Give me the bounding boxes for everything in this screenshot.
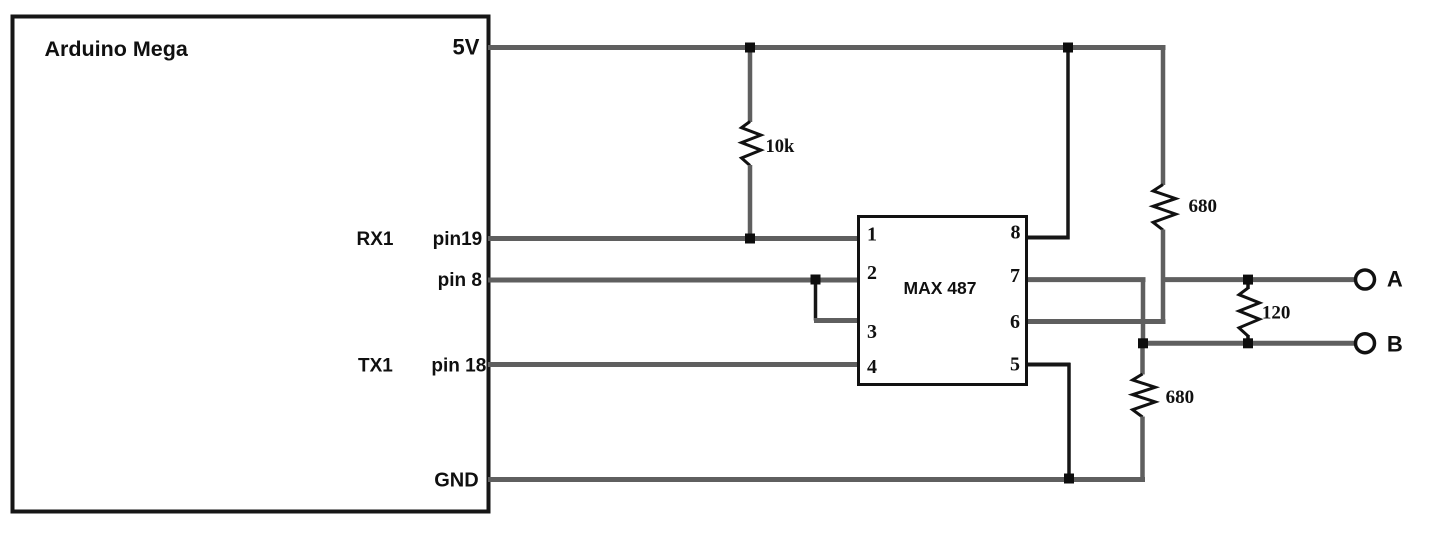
wire jog junction to U1 pin3 vertical <box>814 278 818 321</box>
resistor R3 120 stub top <box>1246 280 1250 289</box>
junction node B-R3 <box>1243 338 1253 348</box>
wire node B line <box>1143 341 1356 346</box>
resistor R3 120 stub bottom <box>1246 335 1250 343</box>
wire U1 pin6 to R2 line <box>1027 319 1166 324</box>
svg-text:5: 5 <box>1010 353 1020 375</box>
wire jog to U1 pin3 horizontal <box>814 318 858 323</box>
wire node B down to R4 <box>1140 343 1145 374</box>
junction node A-R3 <box>1243 275 1253 285</box>
wire 5V to R1 top <box>748 48 753 123</box>
svg-text:1: 1 <box>867 224 877 246</box>
op-amp U1 MAX 487 box <box>859 217 1027 385</box>
junction node RX1-R1 <box>745 234 755 244</box>
wire R2 bottom to pin6 line <box>1161 230 1166 324</box>
wire 5V rail <box>488 45 1166 50</box>
wire U1 pin5 stub <box>1027 363 1071 367</box>
junction node pin8-jog <box>811 275 821 285</box>
wire R4 bottom to GND corner <box>1143 417 1145 480</box>
svg-text:680: 680 <box>1189 196 1218 217</box>
svg-text:GND: GND <box>434 469 478 491</box>
wire 5V corner down to R2 <box>1163 48 1166 186</box>
junction node B-pin7 <box>1138 338 1148 348</box>
terminal B circle <box>1356 334 1375 353</box>
svg-text:pin19: pin19 <box>433 229 483 250</box>
svg-text:pin 8: pin 8 <box>438 270 482 291</box>
junction node GND-pin5 <box>1064 474 1074 484</box>
svg-text:RX1: RX1 <box>357 229 394 250</box>
wire pin8 to U1 pin2 <box>488 278 858 283</box>
terminal A circle <box>1356 270 1375 289</box>
wire RX1 pin19 to U1 pin1 <box>488 236 858 241</box>
svg-text:120: 120 <box>1262 303 1291 324</box>
svg-text:7: 7 <box>1010 265 1020 287</box>
wire GND rail <box>488 477 1145 482</box>
svg-text:B: B <box>1387 332 1403 357</box>
resistor R3 120 zigzag <box>1239 288 1260 336</box>
resistor R1 10k zigzag <box>742 122 761 166</box>
resistor R4 680 zigzag <box>1133 374 1156 417</box>
svg-text:2: 2 <box>867 262 877 284</box>
svg-text:TX1: TX1 <box>358 355 393 376</box>
wire U1 pin8 stub <box>1027 236 1070 240</box>
resistor R2 680 zigzag <box>1153 185 1176 231</box>
Arduino Mega box U2 <box>13 17 489 512</box>
svg-text:A: A <box>1387 266 1403 291</box>
svg-text:5V: 5V <box>453 34 480 59</box>
svg-text:10k: 10k <box>766 137 796 157</box>
svg-text:4: 4 <box>867 356 877 378</box>
wire U1 pin7 to corner <box>1027 277 1146 282</box>
svg-text:680: 680 <box>1166 387 1195 408</box>
wire node A line <box>1163 277 1356 282</box>
junction node 5V-pin8 <box>1063 43 1073 53</box>
svg-text:3: 3 <box>867 321 877 343</box>
svg-text:Arduino Mega: Arduino Mega <box>45 37 189 61</box>
wire pin7 corner down to node B <box>1141 278 1146 344</box>
svg-text:pin 18: pin 18 <box>431 355 486 376</box>
svg-text:8: 8 <box>1011 222 1021 244</box>
wire pin8 up to 5V rail <box>1066 48 1070 240</box>
wire R1 bottom to RX1 wire <box>748 165 753 239</box>
wire TX1 pin18 to U1 pin4 <box>488 362 858 367</box>
svg-text:MAX 487: MAX 487 <box>904 278 977 298</box>
svg-text:6: 6 <box>1010 311 1020 333</box>
wire pin5 down to GND <box>1067 363 1071 480</box>
junction node 5V-R1 <box>745 43 755 53</box>
